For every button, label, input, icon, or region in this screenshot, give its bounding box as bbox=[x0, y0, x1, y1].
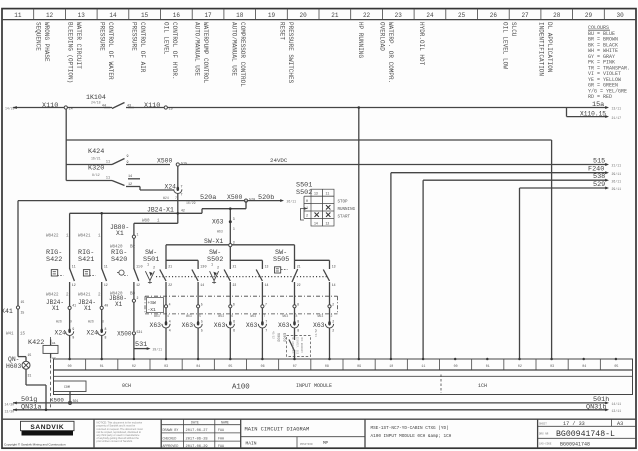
svg-text:1: 1 bbox=[211, 264, 213, 268]
svg-text:S502: S502 bbox=[207, 256, 223, 264]
svg-text:W63: W63 bbox=[250, 314, 256, 318]
svg-text:1: 1 bbox=[147, 264, 149, 268]
svg-text:1CH: 1CH bbox=[478, 383, 487, 389]
svg-text:13: 13 bbox=[332, 264, 336, 268]
svg-text:S505: S505 bbox=[273, 256, 289, 264]
wire 520a / X500.520 / 520b bbox=[18, 200, 281, 202]
svg-text:Copyright © Sandvik Mining and: Copyright © Sandvik Mining and Construct… bbox=[4, 443, 66, 447]
svg-text:X63: X63 bbox=[212, 219, 224, 226]
svg-text:15: 15 bbox=[21, 311, 25, 315]
svg-text:PRESSURE SWITCHES: PRESSURE SWITCHES bbox=[287, 22, 294, 84]
svg-text:22: 22 bbox=[233, 283, 237, 287]
svg-text:08: 08 bbox=[325, 364, 329, 368]
svg-text:X110.15: X110.15 bbox=[580, 110, 606, 117]
svg-text:13/11: 13/11 bbox=[612, 107, 622, 111]
svg-text:DRG NR: DRG NR bbox=[539, 432, 549, 435]
svg-text:SLCU: SLCU bbox=[510, 22, 517, 37]
svg-text:22: 22 bbox=[363, 12, 371, 19]
svg-text:17: 17 bbox=[204, 12, 212, 19]
svg-text:E063: E063 bbox=[282, 333, 286, 342]
svg-text:MSE-1ST-NC7-YD-CABIN CTXG (YD): MSE-1ST-NC7-YD-CABIN CTXG (YD) bbox=[371, 426, 449, 431]
svg-text:MAIN: MAIN bbox=[246, 440, 257, 446]
svg-text:41: 41 bbox=[72, 303, 76, 307]
svg-text:X63: X63 bbox=[182, 322, 194, 329]
svg-text:JB24-X1: JB24-X1 bbox=[147, 207, 174, 214]
svg-text:RD = RED: RD = RED bbox=[588, 94, 612, 100]
svg-text:00: 00 bbox=[68, 364, 72, 368]
svg-text:13/30: 13/30 bbox=[5, 409, 15, 413]
svg-text:HP RUNNING: HP RUNNING bbox=[357, 22, 364, 58]
svg-text:X63: X63 bbox=[150, 322, 162, 329]
wire 538 exit bbox=[423, 179, 606, 181]
svg-text:2: 2 bbox=[332, 319, 334, 323]
svg-text:prior written consent of Sandv: prior written consent of Sandvik. bbox=[97, 439, 134, 443]
wire 501g / 501h bbox=[13, 402, 606, 404]
svg-text:APPROVED: APPROVED bbox=[163, 444, 179, 448]
svg-text:7: 7 bbox=[265, 302, 267, 306]
long vertical to ch09 bbox=[358, 108, 360, 360]
wire 15a exit bbox=[567, 107, 607, 109]
svg-text:14: 14 bbox=[69, 107, 73, 111]
svg-text:STOP: STOP bbox=[338, 201, 349, 205]
svg-text:W80: W80 bbox=[142, 220, 150, 224]
wire F240 exit bbox=[391, 172, 606, 174]
svg-text:5: 5 bbox=[199, 314, 201, 318]
svg-text:CONTROL OF WATER: CONTROL OF WATER bbox=[107, 22, 114, 80]
svg-text:26/11: 26/11 bbox=[287, 199, 297, 203]
svg-text:H603: H603 bbox=[6, 363, 22, 370]
switch contact col 4 bbox=[197, 264, 199, 270]
svg-text:18: 18 bbox=[236, 12, 244, 19]
svg-text:X24: X24 bbox=[164, 183, 176, 190]
svg-text:MP: MP bbox=[323, 442, 329, 446]
relay coil K422 bbox=[50, 337, 52, 410]
wire X24 to JB24 junction bbox=[177, 193, 179, 223]
svg-text:4: 4 bbox=[169, 328, 171, 332]
svg-text:8: 8 bbox=[297, 319, 299, 323]
svg-text:START: START bbox=[338, 215, 351, 219]
svg-text:W63: W63 bbox=[217, 230, 223, 234]
svg-text:28: 28 bbox=[553, 12, 561, 19]
svg-text:6: 6 bbox=[231, 314, 233, 318]
svg-text:X500: X500 bbox=[227, 194, 243, 201]
svg-text:HYDR.OIL HOT: HYDR.OIL HOT bbox=[418, 22, 425, 66]
svg-text:11: 11 bbox=[14, 12, 22, 19]
svg-text:DL APPLICATION: DL APPLICATION bbox=[546, 22, 553, 73]
svg-text:2: 2 bbox=[217, 267, 219, 271]
date/name table bbox=[183, 419, 185, 448]
svg-text:S502: S502 bbox=[296, 189, 312, 197]
connector SW-X1.7 bbox=[261, 286, 263, 305]
svg-text:06: 06 bbox=[261, 364, 265, 368]
COM sub-box bbox=[54, 381, 87, 392]
svg-text:9: 9 bbox=[72, 336, 74, 340]
svg-text:24/18: 24/18 bbox=[91, 101, 101, 105]
svg-text:INPUT MODULE: INPUT MODULE bbox=[296, 383, 332, 389]
svg-text:11: 11 bbox=[106, 177, 110, 181]
svg-text:12: 12 bbox=[72, 283, 76, 287]
svg-text:43: 43 bbox=[127, 104, 131, 108]
svg-text:14/30: 14/30 bbox=[5, 402, 15, 406]
svg-text:04: 04 bbox=[582, 364, 586, 368]
wire QN31a / QN31b bbox=[13, 409, 606, 411]
svg-text:12: 12 bbox=[46, 12, 54, 19]
svg-text:OIL LEVEL: OIL LEVEL bbox=[163, 22, 170, 55]
svg-text:COM: COM bbox=[64, 385, 70, 389]
svg-text:PRESSURE: PRESSURE bbox=[131, 22, 138, 51]
svg-text:21: 21 bbox=[331, 12, 339, 19]
svg-text:BR: BR bbox=[130, 246, 136, 250]
svg-text:+SW: +SW bbox=[148, 300, 157, 306]
svg-text:11: 11 bbox=[421, 364, 425, 368]
svg-text:41/12: 41/12 bbox=[272, 331, 276, 339]
svg-text:16/29: 16/29 bbox=[186, 201, 196, 205]
connector SW-X1.2 bbox=[329, 286, 331, 305]
svg-text:W63: W63 bbox=[186, 314, 192, 318]
svg-text:3: 3 bbox=[233, 241, 235, 245]
svg-text:09: 09 bbox=[357, 364, 361, 368]
operator S420 bbox=[119, 270, 124, 275]
svg-text:9: 9 bbox=[127, 161, 129, 165]
svg-text:X63: X63 bbox=[246, 322, 258, 329]
svg-text:44: 44 bbox=[102, 104, 106, 108]
svg-text:12: 12 bbox=[104, 283, 108, 287]
operator S505 bbox=[275, 267, 281, 273]
svg-text:QN31b: QN31b bbox=[586, 403, 606, 411]
svg-text:14: 14 bbox=[314, 222, 318, 226]
svg-text:8: 8 bbox=[297, 328, 299, 332]
svg-text:0: 0 bbox=[306, 200, 308, 204]
svg-text:MAIN CIRCUIT DIAGRAM: MAIN CIRCUIT DIAGRAM bbox=[245, 427, 310, 433]
terminal JB24-X1.40 col1 bbox=[101, 286, 103, 306]
svg-text:RUNNING: RUNNING bbox=[338, 208, 356, 212]
svg-text:14: 14 bbox=[128, 175, 132, 179]
operator S422 bbox=[51, 270, 57, 276]
svg-text:8/12: 8/12 bbox=[92, 173, 100, 177]
svg-text:14/11: 14/11 bbox=[612, 402, 622, 406]
svg-text:7: 7 bbox=[181, 193, 183, 197]
svg-text:2: 2 bbox=[306, 215, 308, 219]
svg-text:11: 11 bbox=[104, 264, 108, 268]
svg-text:531: 531 bbox=[137, 330, 143, 334]
terminal JB24-X1.41 col0 bbox=[69, 286, 71, 306]
switch contact col 5 bbox=[229, 264, 231, 270]
wire X63.3 drop bbox=[229, 209, 231, 244]
svg-text:20: 20 bbox=[300, 12, 308, 19]
svg-text:515: 515 bbox=[593, 158, 605, 166]
svg-text:2: 2 bbox=[153, 267, 155, 271]
svg-text:14: 14 bbox=[265, 283, 269, 287]
svg-text:A100 INPUT MODULE 0CH &amp; 1C: A100 INPUT MODULE 0CH &amp; 1CH bbox=[371, 434, 452, 439]
switch contact col 7 bbox=[294, 264, 296, 270]
svg-text:3: 3 bbox=[233, 217, 235, 221]
svg-text:520: 520 bbox=[249, 198, 255, 202]
svg-text:29/11: 29/11 bbox=[153, 348, 163, 352]
svg-text:0: 0 bbox=[205, 266, 207, 270]
svg-text:8: 8 bbox=[105, 336, 107, 340]
svg-text:INDENTIFICATION: INDENTIFICATION bbox=[538, 22, 545, 76]
svg-text:21: 21 bbox=[233, 264, 237, 268]
svg-text:15: 15 bbox=[20, 333, 26, 337]
sheet / drawing number cell bbox=[538, 425, 636, 427]
svg-text:05: 05 bbox=[614, 364, 618, 368]
svg-text:11: 11 bbox=[136, 264, 140, 268]
svg-text:X110: X110 bbox=[42, 102, 58, 110]
connector SW-X1.4 bbox=[165, 286, 167, 305]
svg-text:BD: BD bbox=[130, 293, 136, 297]
svg-text:8: 8 bbox=[102, 320, 104, 324]
SW-X1 connector enclosure (dashed) bbox=[145, 295, 338, 297]
svg-text:SW-X1: SW-X1 bbox=[204, 238, 223, 245]
svg-text:W24: W24 bbox=[163, 196, 169, 200]
svg-text:9: 9 bbox=[70, 320, 72, 324]
svg-text:17 / 33: 17 / 33 bbox=[563, 421, 585, 427]
svg-text:AUTO/MANUAL USE: AUTO/MANUAL USE bbox=[194, 22, 201, 76]
svg-text:QN31a: QN31a bbox=[21, 403, 41, 411]
svg-text:538: 538 bbox=[593, 173, 605, 181]
svg-text:42: 42 bbox=[181, 209, 185, 213]
svg-text:X1: X1 bbox=[52, 305, 60, 312]
svg-text:13: 13 bbox=[200, 264, 204, 268]
svg-text:CONTROL OF HYDR.: CONTROL OF HYDR. bbox=[171, 22, 178, 80]
svg-text:AUTO/MANUAL USE: AUTO/MANUAL USE bbox=[231, 22, 238, 76]
svg-text:S422: S422 bbox=[46, 256, 62, 264]
svg-text:X63: X63 bbox=[313, 322, 325, 329]
svg-text:7: 7 bbox=[181, 186, 183, 190]
input module A100 bbox=[54, 359, 633, 395]
svg-text:29/11: 29/11 bbox=[314, 329, 318, 337]
svg-text:X1: X1 bbox=[84, 305, 92, 312]
svg-text:K424: K424 bbox=[88, 148, 104, 156]
svg-text:4: 4 bbox=[169, 319, 171, 323]
svg-text:6: 6 bbox=[233, 328, 235, 332]
svg-text:26/11: 26/11 bbox=[612, 179, 622, 183]
contact X903/E063 on col7 bbox=[294, 328, 296, 341]
svg-text:15: 15 bbox=[28, 353, 32, 357]
svg-text:K422: K422 bbox=[28, 339, 44, 347]
svg-text:SANDVIK: SANDVIK bbox=[30, 424, 64, 431]
contact K424 bbox=[66, 164, 112, 166]
svg-text:21: 21 bbox=[297, 264, 301, 268]
svg-text:02: 02 bbox=[518, 364, 522, 368]
svg-text:S421: S421 bbox=[78, 256, 94, 264]
svg-text:11: 11 bbox=[72, 264, 76, 268]
svg-text:BG00941748-L: BG00941748-L bbox=[556, 430, 615, 439]
svg-text:FAA: FAA bbox=[218, 444, 224, 448]
switch contact col 6 bbox=[261, 264, 263, 270]
svg-text:16: 16 bbox=[173, 12, 181, 19]
svg-text:DOC BG00845: DOC BG00845 bbox=[300, 337, 303, 353]
svg-text:WATER CIRCUIT: WATER CIRCUIT bbox=[75, 22, 82, 69]
svg-text:14: 14 bbox=[109, 12, 117, 19]
svg-text:03: 03 bbox=[550, 364, 554, 368]
svg-text:DRAWN BY: DRAWN BY bbox=[163, 428, 179, 432]
svg-text:2: 2 bbox=[331, 314, 333, 318]
svg-text:W26: W26 bbox=[88, 320, 94, 324]
svg-text:OIL LEVEL LOW: OIL LEVEL LOW bbox=[502, 22, 509, 69]
wire 14 / X110.15 top supply bbox=[13, 107, 567, 109]
svg-text:8: 8 bbox=[296, 314, 298, 318]
svg-text:21: 21 bbox=[168, 264, 172, 268]
svg-text:07: 07 bbox=[293, 364, 297, 368]
connector SW-X1.6 bbox=[229, 286, 231, 305]
svg-text:CONTROL OF AIR: CONTROL OF AIR bbox=[139, 22, 146, 73]
svg-text:00: 00 bbox=[454, 364, 458, 368]
svg-text:W41: W41 bbox=[6, 333, 14, 337]
svg-text:31: 31 bbox=[28, 373, 32, 377]
svg-text:FAA: FAA bbox=[218, 436, 224, 440]
svg-text:A100: A100 bbox=[232, 384, 250, 392]
svg-text:S501: S501 bbox=[143, 256, 159, 264]
svg-text:X1: X1 bbox=[116, 230, 124, 237]
svg-text:X1: X1 bbox=[115, 301, 123, 308]
svg-text:529: 529 bbox=[593, 181, 605, 189]
svg-text:QN-: QN- bbox=[8, 356, 20, 363]
wire 24VDC / 515 bbox=[180, 164, 606, 166]
svg-text:7: 7 bbox=[175, 196, 177, 200]
svg-text:BG00941748: BG00941748 bbox=[560, 442, 590, 448]
svg-text:W63: W63 bbox=[318, 314, 324, 318]
svg-text:W8421: W8421 bbox=[78, 235, 91, 239]
svg-text:26: 26 bbox=[490, 12, 498, 19]
svg-text:DL APPLICAT.: DL APPLICAT. bbox=[291, 337, 294, 354]
svg-text:30: 30 bbox=[617, 12, 625, 19]
connector SW-X1.8 bbox=[294, 286, 296, 305]
svg-text:15: 15 bbox=[169, 107, 173, 111]
svg-text:DATE: DATE bbox=[191, 421, 199, 425]
svg-text:01: 01 bbox=[100, 364, 104, 368]
svg-text:0: 0 bbox=[141, 266, 143, 270]
svg-text:13: 13 bbox=[78, 12, 86, 19]
svg-text:8: 8 bbox=[105, 327, 107, 331]
svg-text:15: 15 bbox=[21, 300, 25, 304]
svg-text:27: 27 bbox=[521, 12, 529, 19]
svg-text:14: 14 bbox=[332, 283, 336, 287]
svg-text:W63: W63 bbox=[154, 314, 160, 318]
svg-text:S420: S420 bbox=[111, 256, 127, 264]
svg-text:23: 23 bbox=[395, 12, 403, 19]
svg-text:5: 5 bbox=[201, 328, 203, 332]
svg-text:13: 13 bbox=[265, 264, 269, 268]
svg-text:W8422: W8422 bbox=[46, 235, 59, 239]
svg-text:NAME: NAME bbox=[221, 421, 229, 425]
spring return arrow bbox=[301, 209, 308, 221]
operator S502 bbox=[210, 271, 219, 280]
svg-text:15: 15 bbox=[141, 12, 149, 19]
left bus vertical x66.5 bbox=[65, 109, 67, 180]
wire 520 drop to JB24 bus bbox=[245, 201, 247, 209]
svg-text:14: 14 bbox=[200, 283, 204, 287]
svg-text:1: 1 bbox=[306, 207, 308, 211]
svg-text:SHEET: SHEET bbox=[539, 423, 547, 426]
svg-text:13/11: 13/11 bbox=[612, 409, 622, 413]
svg-text:FAA: FAA bbox=[218, 428, 224, 432]
svg-text:21/11: 21/11 bbox=[612, 164, 622, 168]
svg-text:21/17: 21/17 bbox=[612, 116, 622, 120]
svg-text:13: 13 bbox=[314, 192, 318, 196]
svg-text:29/11: 29/11 bbox=[612, 172, 622, 176]
svg-text:WRONG PHASE: WRONG PHASE bbox=[43, 22, 50, 62]
svg-text:9: 9 bbox=[127, 155, 129, 159]
svg-text:9: 9 bbox=[72, 327, 74, 331]
switch contact col 8 bbox=[329, 264, 331, 270]
svg-text:22: 22 bbox=[168, 283, 172, 287]
A100 strip junction dots bbox=[68, 358, 71, 361]
svg-text:BLEEDING (OPTION): BLEEDING (OPTION) bbox=[67, 22, 74, 83]
svg-text:29/11: 29/11 bbox=[612, 187, 622, 191]
svg-text:POSITION: POSITION bbox=[300, 443, 313, 446]
svg-text:W26: W26 bbox=[56, 320, 62, 324]
svg-text:CHECKED: CHECKED bbox=[163, 436, 177, 440]
svg-text:CAD-CODE: CAD-CODE bbox=[539, 443, 552, 446]
svg-text:WATERPUMP CONTROL: WATERPUMP CONTROL bbox=[202, 22, 209, 84]
svg-text:19: 19 bbox=[268, 12, 276, 19]
svg-text:520a: 520a bbox=[200, 194, 216, 202]
svg-text:0CH: 0CH bbox=[122, 383, 131, 389]
svg-text:10: 10 bbox=[389, 364, 393, 368]
svg-text:3: 3 bbox=[233, 227, 235, 231]
lamp QN-H603 bbox=[18, 356, 26, 358]
svg-text:1: 1 bbox=[137, 232, 139, 236]
svg-text:05: 05 bbox=[228, 364, 232, 368]
svg-text:7: 7 bbox=[263, 314, 265, 318]
svg-text:-X1: -X1 bbox=[148, 307, 157, 313]
svg-text:X24: X24 bbox=[54, 329, 66, 336]
operator S501 bbox=[145, 271, 154, 280]
contact 1K104 44-43 bbox=[110, 104, 128, 111]
svg-text:K320: K320 bbox=[88, 165, 104, 173]
svg-text:W63: W63 bbox=[218, 314, 224, 318]
svg-text:02: 02 bbox=[132, 364, 136, 368]
switch contact col 1 bbox=[101, 264, 103, 270]
svg-text:2: 2 bbox=[332, 328, 334, 332]
svg-text:W63: W63 bbox=[283, 314, 289, 318]
terminal JB80-X1.2 col2 bbox=[133, 286, 135, 299]
svg-text:W8421: W8421 bbox=[78, 294, 91, 298]
svg-text:SEQUENCE: SEQUENCE bbox=[35, 22, 42, 51]
svg-text:PRESSURE: PRESSURE bbox=[99, 22, 106, 51]
svg-text:2017-06-29: 2017-06-29 bbox=[186, 445, 208, 449]
svg-text:12: 12 bbox=[136, 283, 140, 287]
wire X110.15 branch exit bbox=[566, 108, 568, 117]
svg-text:4: 4 bbox=[167, 314, 169, 318]
svg-text:16/21: 16/21 bbox=[91, 156, 101, 160]
contact K320 bbox=[66, 180, 112, 182]
svg-text:X41: X41 bbox=[1, 308, 13, 315]
switch contact col 2 bbox=[133, 264, 135, 270]
svg-text:11: 11 bbox=[106, 161, 110, 165]
svg-text:5: 5 bbox=[201, 302, 203, 306]
svg-text:03: 03 bbox=[164, 364, 168, 368]
switch feed bus y244.8 bbox=[166, 244, 229, 246]
svg-text:IDENTIF. SEE: IDENTIF. SEE bbox=[296, 337, 299, 355]
operator S421 bbox=[83, 270, 89, 276]
svg-text:WATERP. OR COMPR.: WATERP. OR COMPR. bbox=[387, 22, 394, 83]
wire JB24 feed bus bbox=[70, 212, 178, 214]
connector SW-X1.5 bbox=[197, 286, 199, 305]
svg-text:X24: X24 bbox=[86, 329, 98, 336]
svg-text:6: 6 bbox=[233, 302, 235, 306]
svg-text:5: 5 bbox=[201, 319, 203, 323]
svg-text:04: 04 bbox=[196, 364, 200, 368]
svg-text:RESET: RESET bbox=[279, 22, 286, 40]
column grid numbers 11-30 bbox=[33, 9, 35, 20]
title block bbox=[2, 418, 636, 420]
Sandvik logo bbox=[21, 421, 75, 430]
svg-text:7: 7 bbox=[265, 319, 267, 323]
svg-text:25: 25 bbox=[458, 12, 466, 19]
svg-text:A3: A3 bbox=[617, 421, 623, 427]
